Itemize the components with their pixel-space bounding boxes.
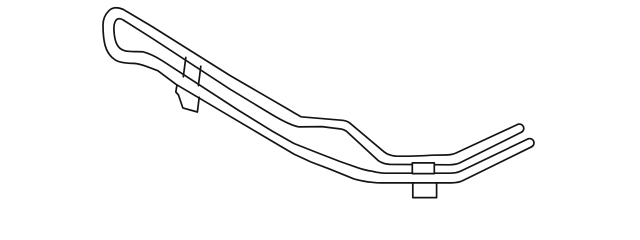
clamp 2 band around pipes at right bbox=[412, 163, 434, 174]
upper tip cap bbox=[518, 124, 524, 132]
clamp 1 left edge stroke bbox=[183, 58, 186, 77]
bracket tab 1 under pipes near loop bbox=[176, 85, 199, 112]
wire L2 bottom edge of upper leg: loop inner apex, diagonal, jog, flat, rise to upper tip bbox=[124, 21, 521, 165]
wire loop inner left and bottom S-curve into L3 top edge of lower leg bbox=[114, 19, 528, 173]
clamp 1 right edge stroke bbox=[198, 66, 200, 85]
wire L4 continue after tab joint to right bend and rise to lower tip bbox=[413, 147, 532, 183]
bracket tab 2 under pipes at right bbox=[413, 183, 437, 198]
wire loop outer left and bottom S-curve into L3 bbox=[103, 8, 413, 183]
lower tip cap bbox=[528, 139, 534, 147]
wire L1 top edge: loop outer apex, diagonal, jog, flat, rise to upper tip bbox=[123, 9, 518, 156]
